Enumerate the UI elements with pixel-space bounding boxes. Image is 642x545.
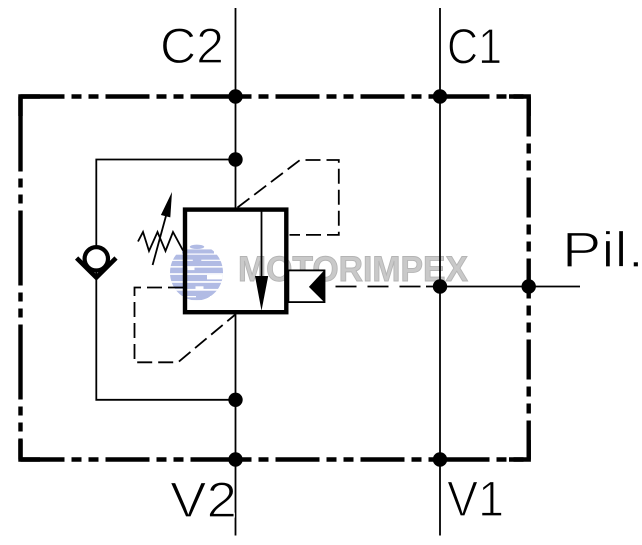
- wire check-valve branch: [96, 160, 235, 400]
- wire C2 vertical line upper: [235, 8, 237, 211]
- svg-text:C2: C2: [160, 18, 224, 74]
- envelope right border: [527, 97, 531, 460]
- svg-text:C1: C1: [447, 19, 502, 75]
- envelope bottom border: [21, 457, 529, 461]
- node C1 pilot: [433, 279, 447, 293]
- spring: [138, 232, 183, 251]
- wire pilot line dashed: [325, 286, 427, 288]
- watermark globe logo: [168, 245, 230, 300]
- envelope corner bottom-right: [509, 440, 529, 460]
- envelope left border: [18, 97, 22, 460]
- check valve CV1 seat: [77, 258, 116, 278]
- node Pil border: [522, 279, 536, 293]
- check valve CV1 ball: [85, 247, 108, 270]
- node V1 bottom: [433, 452, 447, 466]
- envelope corner top-right: [509, 97, 529, 117]
- valve internal flow line: [261, 210, 263, 278]
- pilot actuator arrow: [309, 270, 324, 302]
- svg-text:V2: V2: [170, 472, 237, 528]
- node C2 top: [228, 89, 242, 103]
- wire V2 vertical line lower: [235, 312, 237, 536]
- envelope corner bottom-left: [21, 440, 41, 460]
- node C2 branch: [228, 152, 242, 166]
- envelope corner top-left: [21, 97, 41, 117]
- adjustment arrow head: [161, 192, 172, 217]
- pilot drain dashed path lower-left: [135, 288, 236, 363]
- envelope top border: [21, 94, 529, 98]
- adjustment arrow shaft: [153, 214, 167, 265]
- pilot actuator box: [288, 270, 324, 302]
- svg-text:V1: V1: [447, 471, 504, 527]
- svg-text:Pil.: Pil.: [562, 222, 642, 278]
- valve body V1 (relief valve square): [185, 210, 286, 313]
- node C1 top: [433, 89, 447, 103]
- node V2 bottom: [228, 452, 242, 466]
- valve internal arrow: [255, 276, 268, 311]
- wire C1-V1 vertical line: [439, 8, 441, 536]
- pilot drain dashed path upper-right: [238, 160, 339, 235]
- wire pilot line solid: [426, 286, 580, 288]
- node V2 branch: [228, 393, 242, 407]
